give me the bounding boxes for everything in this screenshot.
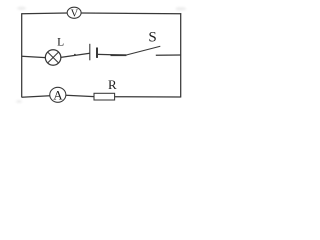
switch S lever (open) [126, 46, 160, 55]
lamp L cross diagonal 1 [48, 52, 59, 63]
voltmeter V1 ellipse [67, 7, 81, 18]
scan speckle bottom-left [16, 100, 22, 103]
circuit schematic: series circuit with lamp L, battery, switch S; voltmeter V across top; ammeter A and resistor R on bottom rail [0, 0, 196, 109]
svg-text:S: S [148, 30, 156, 46]
wire: right rail [180, 13, 182, 97]
svg-text:A: A [53, 87, 63, 102]
wire: resistor to right rail [115, 96, 181, 98]
battery negative short plate [96, 48, 98, 58]
wire: ammeter to resistor [66, 95, 94, 96]
wire: bottom rail left segment [22, 96, 50, 98]
ammeter A1 ellipse [50, 87, 66, 102]
svg-text:R: R [108, 77, 117, 92]
wire: top rail right segment [81, 12, 181, 15]
wire: lamp to battery [61, 53, 90, 57]
svg-text:V: V [71, 8, 79, 19]
resistor R box [94, 93, 115, 100]
svg-text:L: L [57, 37, 64, 49]
scan smudge top-right [175, 7, 186, 10]
switch S terminal bar (thick) [111, 54, 127, 56]
wire: switch right contact to right rail [156, 54, 181, 56]
wire: battery to switch terminal [98, 53, 127, 56]
lamp L cross diagonal 2 [48, 52, 59, 63]
wire: top rail left segment [22, 12, 68, 15]
scan smudge top-left [17, 7, 26, 10]
battery positive long plate [89, 44, 91, 61]
junction dot on wire [74, 54, 76, 56]
lamp L circle [45, 50, 61, 66]
wire: left rail [21, 13, 23, 97]
wire: middle branch from left rail to lamp [22, 56, 46, 57]
